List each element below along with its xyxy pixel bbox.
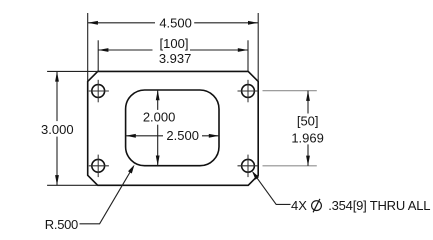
svg-text:[100]: [100] [160,36,189,51]
svg-text:4X: 4X [291,198,307,213]
svg-text:1.969: 1.969 [291,131,324,146]
svg-text:2.500: 2.500 [166,128,199,143]
svg-text:3.000: 3.000 [41,122,74,137]
svg-text:R.500: R.500 [45,217,78,232]
svg-text:3.937: 3.937 [159,51,192,66]
svg-text:[50]: [50] [297,113,319,128]
svg-text:2.000: 2.000 [143,110,176,125]
svg-text:4.500: 4.500 [159,16,192,31]
svg-text:.354[9] THRU ALL: .354[9] THRU ALL [328,198,430,213]
